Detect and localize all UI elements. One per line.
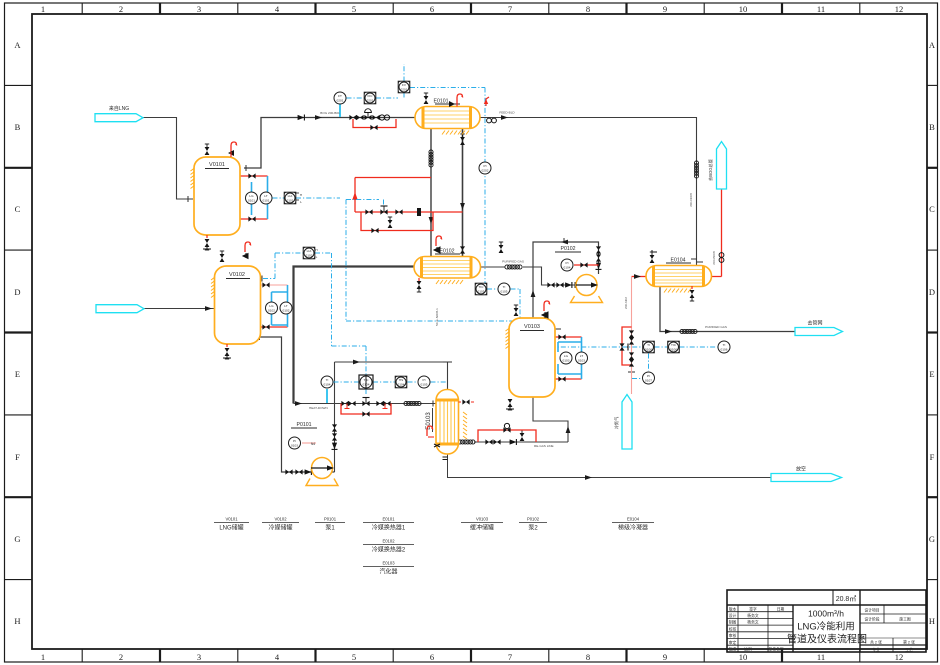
- valve V0103 bridle bottom: [558, 376, 565, 381]
- wire E0104 bottom outlet to gas grid flag: [660, 287, 795, 332]
- wire E0101 bottom-left pipe to E0102: [430, 128, 432, 257]
- svg-text:0201: 0201: [401, 88, 408, 92]
- flow arrow V0103 top riser (up): [531, 290, 536, 297]
- svg-text:200-B008: 200-B008: [712, 251, 716, 265]
- check valve BOG line: [298, 115, 305, 121]
- wire E0103 outlet red bypass: [478, 430, 536, 442]
- wire red manifold lower bypass: [361, 212, 433, 231]
- svg-text:版本: 版本: [729, 606, 737, 611]
- flow arrow E0101 left downcomer (down): [429, 217, 434, 224]
- wire E0102 outlet to P0102 suction: [481, 267, 576, 285]
- wire V0103 top line to P0102: [533, 242, 599, 318]
- valve P0101 riser 2: [332, 433, 337, 440]
- flow tap E0104 red outlet: [719, 253, 724, 263]
- instrument TIC0105: [475, 283, 487, 295]
- relief valve V0103 bottom: [508, 399, 513, 410]
- svg-text:H: H: [300, 193, 302, 197]
- svg-text:设计阶段: 设计阶段: [864, 617, 879, 622]
- wire signal FIC to FY: [376, 93, 404, 99]
- wire feed no.2 inlet to V0102: [144, 308, 215, 310]
- wire signal path B vertical x346: [346, 200, 520, 348]
- svg-text:来自LNG: 来自LNG: [109, 105, 129, 112]
- wire signal LIA V0101 to right: [296, 197, 340, 199]
- vent red V0102: [245, 242, 251, 252]
- vessel V0102: [211, 242, 261, 359]
- svg-text:HEAT-DOWN: HEAT-DOWN: [309, 406, 328, 410]
- valve P0101 riser 1: [332, 424, 337, 431]
- svg-text:V0102: V0102: [229, 272, 245, 278]
- svg-text:0103: 0103: [291, 444, 298, 448]
- svg-text:PI: PI: [566, 261, 569, 265]
- svg-text:0101: 0101: [287, 199, 294, 203]
- svg-text:9: 9: [663, 4, 667, 14]
- instrument FY0201: [398, 81, 410, 93]
- wire signal FY across to PT riser: [410, 88, 485, 284]
- svg-text:PURIFIED GAS: PURIFIED GAS: [502, 260, 524, 264]
- svg-text:8: 8: [586, 652, 590, 662]
- svg-text:杨务文: 杨务文: [747, 620, 759, 625]
- wire pump P0101 discharge top line to E0103 top: [335, 362, 448, 390]
- drain tick red 2: [383, 404, 388, 409]
- relief valve E0102 right top: [499, 242, 504, 253]
- svg-text:D: D: [14, 287, 20, 297]
- svg-text:施工图: 施工图: [899, 617, 911, 622]
- valve red manifold bypass: [371, 228, 378, 233]
- svg-text:0102: 0102: [283, 309, 290, 313]
- svg-text:H: H: [315, 248, 317, 252]
- svg-text:TI: TI: [647, 343, 650, 347]
- instrument LIA0101: [284, 192, 302, 204]
- svg-text:2: 2: [119, 4, 123, 14]
- control valve E0104 station: [619, 343, 628, 350]
- svg-text:冷媒换热器2: 冷媒换热器2: [372, 546, 406, 554]
- valve V0101 bridle top: [248, 173, 255, 178]
- valve gate3: [376, 401, 383, 406]
- flow arrow E0103 bottom vent line: [585, 475, 592, 480]
- svg-text:PI: PI: [647, 374, 650, 378]
- instrument LG0103: [560, 352, 572, 364]
- svg-text:5: 5: [352, 652, 356, 662]
- flag vent (bottom right): [771, 474, 842, 482]
- flag to gas grid: [795, 328, 843, 336]
- svg-text:汽化器: 汽化器: [379, 568, 397, 576]
- valve gate BOG-1: [349, 115, 356, 120]
- svg-text:E0102: E0102: [382, 539, 395, 544]
- valve V0103 bridle top: [558, 334, 565, 339]
- relief valve E0102 left bottom: [417, 281, 422, 292]
- svg-text:TIC: TIC: [364, 378, 370, 382]
- svg-text:0101: 0101: [248, 199, 255, 203]
- svg-text:TI: TI: [503, 285, 506, 289]
- instrument LT0102: [280, 302, 292, 314]
- svg-text:LG: LG: [269, 304, 274, 308]
- svg-text:B: B: [15, 122, 21, 132]
- instrument FT0201: [334, 92, 346, 104]
- svg-text:0105: 0105: [421, 383, 428, 387]
- svg-text:E0101: E0101: [382, 517, 395, 522]
- wire signal FT to FIC: [347, 97, 365, 99]
- svg-text:G: G: [14, 534, 20, 544]
- svg-text:5: 5: [352, 4, 356, 14]
- instrument PT0202: [479, 162, 491, 174]
- wire V0101 vapor BOG line to E0101: [244, 118, 415, 169]
- svg-text:7: 7: [508, 4, 512, 14]
- valve gate4: [383, 401, 390, 406]
- flow element coil vertical on E0104 top feed: [694, 161, 698, 178]
- instrument TIC0106: [643, 341, 655, 353]
- svg-text:LT: LT: [580, 354, 583, 358]
- flow arrow bottom header: [295, 401, 302, 406]
- svg-text:LT: LT: [284, 304, 287, 308]
- wire V0102 bottom outlet to P0101 suction: [260, 337, 335, 472]
- wire E0103 bottom line to vent flag: [448, 454, 772, 478]
- svg-text:TIC: TIC: [671, 343, 677, 347]
- svg-text:PI: PI: [484, 164, 487, 168]
- instrument TI0107: [718, 341, 730, 353]
- svg-text:管道及仪表流程图: 管道及仪表流程图: [787, 633, 867, 646]
- wire pump P0101 riser: [334, 362, 336, 472]
- svg-text:LG: LG: [249, 194, 254, 198]
- svg-text:V0103: V0103: [476, 517, 489, 522]
- svg-text:C: C: [929, 204, 935, 214]
- svg-text:200-N02: 200-N02: [624, 297, 628, 309]
- instrument PI0108: [643, 372, 655, 384]
- svg-text:去管网: 去管网: [807, 320, 822, 327]
- check valve P0102 riser: [596, 263, 602, 270]
- flow arrow BOG line: [315, 115, 322, 120]
- heat exchanger E0104: [646, 250, 712, 301]
- svg-text:G: G: [929, 534, 935, 544]
- flag cold nitrogen vent (vertical): [622, 395, 632, 450]
- svg-text:单位名称: 单位名称: [768, 647, 783, 652]
- valve gate BOG-3: [372, 115, 379, 120]
- pump P0102: [555, 246, 603, 303]
- svg-text:缓冲储罐: 缓冲储罐: [470, 524, 494, 532]
- svg-text:0101: 0101: [263, 199, 270, 203]
- relief valve V0103 top: [514, 305, 519, 316]
- wire feed LNG inlet line: [142, 118, 193, 200]
- orifice plate red manifold: [417, 208, 421, 216]
- flow element coil on bottom header: [404, 401, 421, 405]
- instrument LG0101: [246, 192, 258, 204]
- svg-text:F: F: [930, 452, 935, 462]
- wire red manifold upper line: [355, 177, 431, 179]
- svg-text:设计项目: 设计项目: [864, 608, 879, 613]
- svg-text:H: H: [929, 616, 935, 626]
- svg-text:审定: 审定: [729, 640, 737, 645]
- wire main bottom header to E0103: [294, 403, 437, 405]
- svg-text:A: A: [14, 40, 21, 50]
- wire E0104 station red bypass bracket: [622, 327, 632, 365]
- svg-text:P0101: P0101: [296, 422, 311, 428]
- svg-text:P0102: P0102: [560, 246, 575, 252]
- relief valve V0102 top: [220, 251, 225, 262]
- instrument TY0104: [395, 376, 407, 388]
- svg-text:0202: 0202: [482, 169, 489, 173]
- svg-text:0103: 0103: [563, 359, 570, 363]
- instrument TY0106: [668, 341, 680, 353]
- drain tick E0103: [443, 457, 448, 460]
- svg-text:50-E-N008-1: 50-E-N008-1: [435, 308, 439, 326]
- flow element coil on E0102 outlet: [505, 265, 522, 269]
- valve red manifold gate1: [365, 209, 372, 214]
- instrument TIC0104 (diamond): [359, 375, 373, 389]
- svg-text:L: L: [300, 200, 302, 204]
- svg-text:10: 10: [739, 652, 748, 662]
- instrument LT0101: [260, 192, 272, 204]
- svg-text:比例: 比例: [744, 647, 752, 652]
- wire V0103 bridle blue: [558, 337, 582, 379]
- vent red E0101 right: [486, 97, 489, 106]
- valve gate2: [348, 401, 355, 406]
- svg-text:HS: HS: [399, 378, 403, 382]
- heat exchanger E0103 (vertical): [426, 390, 474, 460]
- valve E0103 outlet 1: [485, 439, 492, 444]
- svg-text:日期: 日期: [777, 606, 785, 611]
- svg-text:共 2 张: 共 2 张: [870, 640, 882, 645]
- svg-text:3: 3: [197, 652, 201, 662]
- vent red E0101: [457, 94, 463, 104]
- svg-text:泵2: 泵2: [528, 525, 538, 532]
- flow arrow E0103 outlet junction (up): [566, 426, 571, 433]
- svg-text:V0101: V0101: [225, 517, 238, 522]
- svg-text:F: F: [15, 452, 20, 462]
- flow arrow P0102 discharge (left): [561, 240, 568, 245]
- svg-text:A: A: [929, 40, 936, 50]
- flow arrow E0101 outlet: [501, 115, 508, 120]
- wire signal TIC-TI E0102: [487, 288, 520, 290]
- svg-text:11: 11: [817, 4, 825, 14]
- svg-text:6: 6: [430, 652, 434, 662]
- flag inlet refrigerant: [96, 305, 144, 313]
- flow arrow feed2 into V0102: [205, 306, 212, 311]
- svg-text:0104: 0104: [363, 383, 370, 387]
- check valve P0101 suction: [305, 469, 312, 475]
- check valve P0102 suction: [565, 282, 572, 288]
- flag inlet LNG: [95, 114, 143, 122]
- wire signal control valve actuator tap: [366, 200, 384, 397]
- svg-text:第 2 张: 第 2 张: [903, 640, 915, 645]
- wire signal V0102 top to LIA square and down: [263, 253, 366, 375]
- relief valve E0101: [424, 93, 429, 104]
- svg-text:TI: TI: [723, 343, 726, 347]
- svg-text:12: 12: [895, 652, 904, 662]
- instrument PI0109 (P0102 gauge): [561, 259, 573, 271]
- svg-text:E0104: E0104: [627, 517, 640, 522]
- svg-text:1000m³/h: 1000m³/h: [808, 609, 844, 619]
- flow arrow E0104 red inlet: [634, 274, 641, 279]
- svg-text:P0101: P0101: [324, 517, 337, 522]
- wire red bypass below BOG control valve: [353, 119, 396, 128]
- restriction orifice pair on BOG line: [379, 115, 389, 120]
- wire pink instrument lines: [261, 277, 632, 444]
- vent red E0102: [436, 236, 442, 246]
- valve stem V0101 vent: [228, 150, 234, 156]
- valve E0104 station v1: [629, 330, 634, 337]
- instrument PI0105: [418, 376, 430, 388]
- wire V0101 level bridle red taps: [240, 176, 268, 219]
- svg-text:V0101: V0101: [209, 162, 225, 168]
- wire V0102 bridle blue: [272, 285, 288, 327]
- svg-text:8: 8: [586, 4, 590, 14]
- svg-text:20.8㎡: 20.8㎡: [836, 595, 857, 603]
- wire solid cyan tap FT: [339, 105, 341, 118]
- check valve E0103 outlet: [510, 439, 517, 445]
- flow element coil vertical on E0101 left downcomer: [429, 150, 433, 167]
- check valve P0101 riser: [332, 443, 338, 450]
- vessel V0103: [506, 301, 556, 410]
- svg-text:制图: 制图: [729, 620, 737, 625]
- instrument LT0103: [576, 352, 588, 364]
- valve P0101 suction 2: [295, 469, 302, 474]
- wire solid cyan tap TI bottom row: [326, 389, 328, 403]
- relief valve V0101 top: [205, 144, 210, 155]
- svg-text:TIC: TIC: [479, 285, 485, 289]
- svg-text:冷媒储罐: 冷媒储罐: [268, 524, 292, 532]
- valve E0104 station v3: [629, 352, 634, 359]
- wire P0102 gauge line: [574, 264, 599, 266]
- wire V0102 bridle bottom tap: [261, 326, 288, 328]
- relief valve V0102 bottom: [225, 348, 230, 359]
- vent red V0101: [231, 142, 237, 152]
- svg-text:0201: 0201: [367, 99, 374, 103]
- orifice tap pair on E0101 outlet: [487, 118, 497, 123]
- svg-text:设计: 设计: [729, 613, 737, 618]
- svg-text:H: H: [14, 616, 20, 626]
- svg-text:LG: LG: [564, 354, 569, 358]
- valve E0104 station v4: [629, 359, 634, 366]
- node nozzle ticks: [188, 165, 703, 407]
- wire V0103 bridle taps: [554, 337, 582, 379]
- flag to BOG header (vertical): [717, 142, 727, 190]
- wire red manifold main line: [355, 211, 463, 213]
- svg-text:LNG冷能利用: LNG冷能利用: [797, 621, 855, 633]
- svg-text:0105: 0105: [501, 290, 508, 294]
- svg-text:0106: 0106: [670, 348, 677, 352]
- valve gate BOG-2: [356, 115, 363, 120]
- vessel V0101: [191, 142, 241, 250]
- relief valve E0104 bottom right: [690, 290, 695, 301]
- svg-text:校核: 校核: [729, 626, 737, 631]
- svg-text:LNG储罐: LNG储罐: [219, 524, 243, 532]
- valve P0102 suction 1: [547, 282, 554, 287]
- valve red manifold gate2: [395, 209, 402, 214]
- svg-text:PI: PI: [293, 439, 296, 443]
- svg-text:11: 11: [817, 652, 825, 662]
- svg-text:0102: 0102: [306, 254, 313, 258]
- wire red manifold riser: [354, 178, 356, 213]
- flow arrow P0101 top line: [353, 360, 360, 365]
- svg-text:E: E: [15, 369, 20, 379]
- wire E0101 outlet long line to E0104 top: [480, 118, 697, 267]
- valve E0104 station v2: [629, 337, 634, 344]
- wire V0102 riser and E0102 feed header: [294, 267, 415, 404]
- svg-text:冷氮气: 冷氮气: [613, 416, 620, 429]
- relief valve E0103 outlet: [520, 430, 525, 441]
- flow arrow red manifold riser (up): [352, 192, 358, 200]
- motor valve E0103 bypass: [503, 423, 510, 432]
- svg-text:泵1: 泵1: [325, 525, 335, 532]
- valve E0103 outlet 2: [493, 439, 500, 444]
- svg-text:N4: N4: [311, 442, 315, 446]
- svg-text:0107: 0107: [645, 379, 652, 383]
- svg-text:专业: 专业: [872, 647, 880, 652]
- control valve BOG: [364, 109, 371, 120]
- svg-text:V0102: V0102: [274, 517, 287, 522]
- wire E0104 outlet red to BOG flag: [712, 189, 722, 277]
- drain tick red 1: [345, 404, 350, 409]
- vent red E0103: [427, 426, 433, 436]
- svg-text:1: 1: [41, 652, 45, 662]
- instrument LG0102: [266, 302, 278, 314]
- svg-text:B: B: [929, 122, 935, 132]
- svg-text:0104: 0104: [398, 383, 405, 387]
- svg-text:冷媒换热器1: 冷媒换热器1: [372, 524, 406, 532]
- svg-text:签字: 签字: [749, 606, 757, 611]
- svg-text:V0103: V0103: [524, 324, 540, 330]
- svg-text:0105: 0105: [478, 290, 485, 294]
- valve V0101 bridle bottom: [248, 216, 255, 221]
- svg-text:0106: 0106: [721, 348, 728, 352]
- flow arrow E0101 right downcomer (down): [460, 203, 465, 210]
- svg-text:0103: 0103: [578, 359, 585, 363]
- svg-text:2: 2: [119, 652, 123, 662]
- valve V0102 bridle bottom: [262, 324, 269, 329]
- svg-text:FEED-BLD: FEED-BLD: [499, 111, 515, 115]
- flow element coil on E0104 bottom line: [680, 329, 697, 333]
- flow arrow E0104 bottom line: [665, 329, 672, 334]
- relief valve red manifold bypass: [388, 217, 393, 228]
- wire E0104 inlet red: [632, 276, 647, 278]
- svg-text:梯级冷凝器: 梯级冷凝器: [618, 524, 648, 532]
- svg-text:1: 1: [41, 4, 45, 14]
- instrument LIA0102: [303, 247, 317, 259]
- svg-text:杨务文: 杨务文: [747, 613, 759, 618]
- svg-text:0201: 0201: [337, 99, 344, 103]
- instrument TI0104: [321, 376, 333, 388]
- heat exchanger E0102: [414, 236, 503, 292]
- svg-text:0104: 0104: [564, 266, 571, 270]
- valve V0102 bridle top: [262, 282, 269, 287]
- wire V0103 bottom outlet: [533, 397, 568, 442]
- svg-text:P0102: P0102: [527, 517, 540, 522]
- instrument TI0105: [498, 283, 510, 295]
- pump P0101: [291, 422, 338, 486]
- wire bottom station drain bypass: [341, 404, 391, 415]
- svg-text:0104: 0104: [324, 383, 331, 387]
- valve P0102 riser 1: [596, 246, 601, 253]
- wire signal FY up: [403, 64, 405, 82]
- valve P0102 gauge: [580, 262, 587, 267]
- valve P0102 riser 2: [596, 254, 601, 261]
- svg-text:FIC: FIC: [368, 94, 374, 98]
- svg-text:200-N008: 200-N008: [689, 193, 693, 207]
- wire signal PI drop E0104 station: [632, 354, 649, 379]
- valve E0101 right downcomer: [460, 246, 465, 253]
- wire E0101 bottom-right pipe to E0102: [462, 128, 464, 257]
- flow element coil on E0103 side outlet: [458, 440, 475, 444]
- svg-text:L: L: [316, 255, 318, 259]
- svg-text:0106: 0106: [645, 348, 652, 352]
- svg-text:审核: 审核: [729, 633, 737, 638]
- svg-text:LT: LT: [264, 194, 267, 198]
- svg-text:9: 9: [663, 652, 667, 662]
- svg-text:E: E: [929, 369, 934, 379]
- wire signal instrument row y382: [334, 381, 448, 383]
- svg-text:TI: TI: [326, 378, 329, 382]
- svg-text:D: D: [929, 287, 935, 297]
- svg-text:12: 12: [895, 4, 904, 14]
